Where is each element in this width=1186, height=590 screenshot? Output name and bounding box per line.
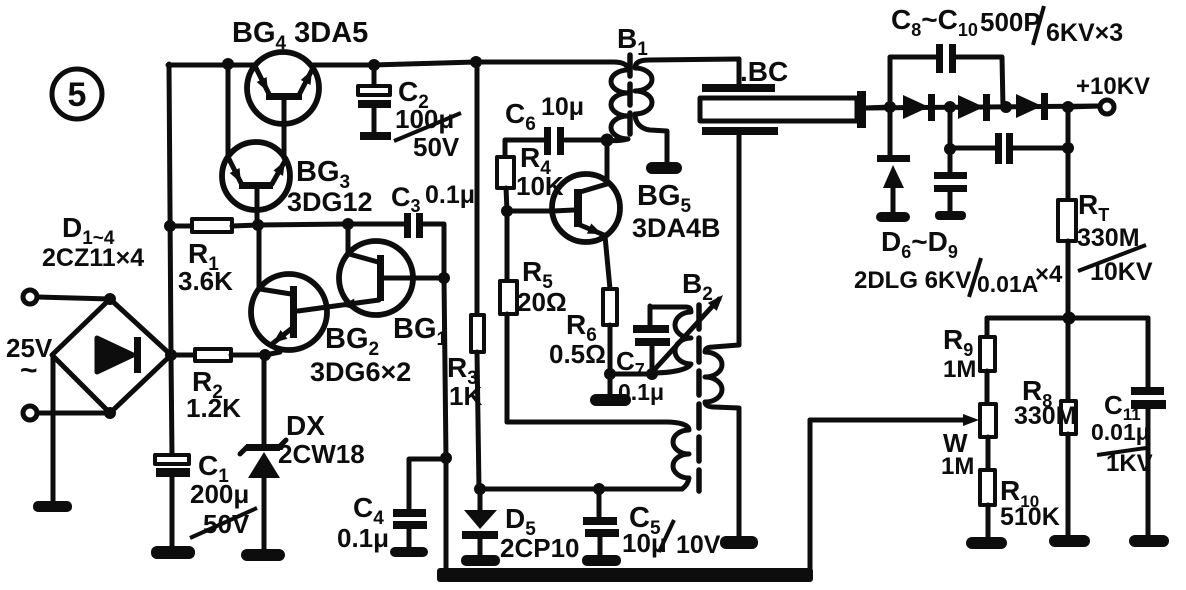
- svg-text:3.6K: 3.6K: [178, 266, 233, 296]
- terminal AC input top: [23, 290, 37, 304]
- svg-text:0.1μ: 0.1μ: [337, 523, 389, 553]
- wire R6 to C7: [610, 372, 652, 377]
- node C4 stub: [440, 452, 452, 464]
- capacitor C3: [348, 213, 444, 278]
- ground B2 secondary: [720, 536, 758, 549]
- svg-text:0.01A: 0.01A: [977, 271, 1038, 297]
- wire wiper return: [808, 420, 813, 572]
- wire BG3 collector drop: [226, 64, 231, 158]
- capacitor C6: [544, 127, 564, 155]
- svg-text:200μ: 200μ: [190, 479, 249, 509]
- transformer B2 variable arrow: [655, 291, 727, 369]
- svg-text:10V: 10V: [676, 531, 721, 559]
- svg-text:+10KV: +10KV: [1076, 73, 1150, 100]
- bridge diode symbol: [97, 337, 141, 373]
- wire BG2 collector drop: [257, 225, 262, 288]
- svg-text:50V: 50V: [413, 132, 460, 162]
- svg-text:10μ: 10μ: [622, 528, 667, 558]
- transformer B2 primary winding: [666, 422, 689, 489]
- svg-text:~: ~: [20, 354, 38, 387]
- ground D6: [876, 212, 910, 222]
- wire R2 to DX node: [231, 353, 265, 358]
- wire feedback drop x445: [444, 278, 446, 572]
- svg-text:BG5: BG5: [637, 180, 692, 217]
- svg-text:0.5Ω: 0.5Ω: [549, 339, 606, 369]
- node D6 top: [884, 101, 896, 113]
- transistor BG1: [298, 224, 444, 315]
- capacitor C9 shunt: [934, 107, 967, 212]
- svg-text:3DG12: 3DG12: [287, 187, 373, 217]
- node C8 right: [1000, 101, 1012, 113]
- wire output to terminal: [1068, 106, 1100, 107]
- svg-text:C6: C6: [505, 98, 536, 135]
- potentiometer W: [980, 404, 996, 470]
- terminal AC input bottom: [23, 406, 37, 420]
- ground R6: [590, 374, 631, 406]
- wire C6 right to node607: [565, 138, 607, 143]
- resistor R5: [500, 211, 517, 422]
- ground B1 secondary: [646, 162, 682, 174]
- resistor R2: [195, 349, 231, 361]
- node BG1 collector: [342, 218, 354, 230]
- node divider: [1063, 312, 1076, 325]
- svg-text:1M: 1M: [941, 453, 974, 480]
- transformer B1 secondary winding: [635, 59, 739, 163]
- svg-text:5: 5: [68, 76, 87, 114]
- resistor R1: [192, 219, 232, 232]
- wire multiplier main rail: [866, 106, 1100, 108]
- svg-text:DX: DX: [286, 410, 325, 441]
- svg-text:1K: 1K: [449, 381, 482, 411]
- wire BG5 emitter to R6: [605, 236, 610, 289]
- svg-text:0.1μ: 0.1μ: [618, 379, 664, 405]
- bridge rectifier D1-4 diamond: [52, 299, 171, 413]
- wire left rail: [169, 64, 172, 456]
- diode D6 shunt: [877, 107, 910, 213]
- capacitor C1: [155, 455, 190, 547]
- svg-text:D6~D9: D6~D9: [881, 226, 958, 262]
- svg-text:C3: C3: [391, 182, 421, 216]
- svg-text:3DG6×2: 3DG6×2: [310, 357, 411, 387]
- svg-text:RT: RT: [1078, 189, 1109, 225]
- node C10 left: [944, 143, 956, 155]
- transistor BG3: [222, 142, 290, 225]
- svg-text:2DLG 6KV: 2DLG 6KV: [854, 267, 971, 294]
- node C2 top: [368, 59, 380, 71]
- svg-text:20Ω: 20Ω: [517, 287, 567, 317]
- svg-text:10K: 10K: [516, 171, 564, 201]
- svg-text:510K: 510K: [1000, 503, 1060, 531]
- node BG3 base: [252, 219, 264, 231]
- tube BC right plate: [857, 91, 890, 128]
- svg-text:BG2: BG2: [325, 323, 379, 360]
- capacitor C10: [950, 133, 1068, 164]
- node R6 bottom: [604, 368, 616, 380]
- wire R1 to node258: [232, 225, 258, 226]
- capacitor C4: [390, 459, 446, 557]
- capacitor C2: [358, 65, 391, 140]
- resistor R7: [1058, 148, 1076, 318]
- wire bridge left vertex to ground: [51, 356, 56, 502]
- ground C9: [935, 211, 966, 220]
- node output: [1062, 101, 1074, 113]
- wire top rail C2 to R3: [374, 62, 476, 65]
- capacitor C11: [1131, 318, 1166, 537]
- svg-text:10μ: 10μ: [541, 93, 584, 121]
- node C9 top: [944, 101, 956, 113]
- svg-text:BG1: BG1: [393, 313, 448, 350]
- node top rail x228: [222, 58, 234, 70]
- node R7 top: [1062, 142, 1074, 154]
- wire bridge to R2: [171, 353, 195, 358]
- diode D5 2CP10: [461, 489, 500, 566]
- wire top rail R3 to B1: [476, 60, 613, 65]
- transistor BG2: [251, 274, 327, 350]
- wire node258 to BG1 collector node: [258, 224, 348, 225]
- wire rail to R1: [170, 224, 192, 229]
- node R1 left: [164, 220, 176, 232]
- svg-text:500P: 500P: [980, 7, 1041, 37]
- node C7 bottom: [646, 368, 658, 380]
- svg-text:330M: 330M: [1014, 402, 1077, 430]
- wire AC bottom: [37, 411, 110, 416]
- figure number 5: [52, 69, 102, 119]
- svg-text:.BC: .BC: [740, 56, 788, 87]
- node bridge bottom vertex: [104, 407, 116, 419]
- svg-text:1.2K: 1.2K: [186, 393, 241, 423]
- svg-text:2CP10: 2CP10: [500, 533, 580, 563]
- diode D9: [1016, 93, 1048, 120]
- svg-text:R9: R9: [943, 324, 973, 360]
- wire D5 to B2 primary bottom: [480, 487, 682, 492]
- capacitor C7: [633, 306, 670, 374]
- terminal +10KV: [1100, 100, 1114, 114]
- resistor R10: [980, 470, 995, 539]
- transformer B1 primary winding: [607, 62, 628, 141]
- wire AC top: [37, 297, 110, 299]
- transistor BG4: [247, 52, 319, 158]
- svg-text:330M: 330M: [1077, 224, 1140, 252]
- capacitor C5: [582, 489, 621, 566]
- tube BC top electrode: [702, 59, 775, 92]
- transformer B2 tank winding: [650, 307, 691, 373]
- node BG1 base: [438, 272, 450, 284]
- svg-text:1M: 1M: [943, 356, 976, 383]
- svg-text:0.1μ: 0.1μ: [425, 181, 475, 209]
- svg-text:2CZ11×4: 2CZ11×4: [42, 244, 144, 272]
- capacitor C8: [890, 44, 1003, 107]
- node DX top: [259, 349, 271, 361]
- resistor R4: [497, 140, 514, 211]
- diode D7: [903, 94, 935, 121]
- node R3 top: [470, 56, 482, 68]
- node D5 top: [474, 483, 486, 495]
- wire base BG5: [507, 209, 553, 214]
- wire R5 to B2 primary: [507, 420, 666, 425]
- svg-text:2CW18: 2CW18: [278, 439, 365, 469]
- resistor R8: [1061, 318, 1076, 537]
- resistor R9: [980, 318, 995, 404]
- wire B2 secondary to ground: [737, 408, 742, 537]
- node bridge right vertex: [165, 349, 177, 361]
- transistor BG5: [552, 140, 620, 242]
- resistor R6: [603, 289, 617, 374]
- transformer B1 core: [627, 55, 633, 137]
- zener diode DX 2CW18: [240, 355, 286, 550]
- ground R8: [1049, 535, 1090, 547]
- svg-text:×4: ×4: [1035, 261, 1063, 288]
- transformer B2 secondary winding: [705, 345, 739, 408]
- wire divider top: [987, 316, 1148, 321]
- ground R10: [966, 537, 1007, 549]
- node B1 bottom junction: [601, 134, 614, 147]
- svg-text:C7: C7: [616, 346, 645, 380]
- svg-text:3DA4B: 3DA4B: [632, 213, 721, 243]
- wire C6 left: [505, 138, 545, 143]
- wire top rail to BG4 collector: [168, 63, 255, 68]
- svg-text:B2: B2: [682, 268, 713, 305]
- tube BC bottom electrode: [702, 127, 778, 345]
- diode D8: [958, 94, 990, 121]
- tube BC body: [700, 98, 857, 121]
- wire output node to R7: [1066, 107, 1071, 148]
- ground DX: [241, 549, 285, 561]
- wire node to BG2 emitter: [265, 352, 280, 355]
- node bridge top vertex: [104, 293, 116, 305]
- transformer B2 core: [696, 305, 702, 491]
- wiper arrow W: [810, 414, 979, 426]
- ground bus bottom: [437, 568, 813, 582]
- svg-text:1KV: 1KV: [1106, 450, 1153, 477]
- ground C1: [151, 546, 195, 559]
- svg-text:C8~C10: C8~C10: [891, 4, 978, 40]
- svg-text:10KV: 10KV: [1090, 258, 1153, 286]
- svg-text:50V: 50V: [203, 509, 250, 539]
- svg-text:BG4 3DA5: BG4 3DA5: [232, 17, 368, 54]
- node BG5 base junction: [501, 205, 513, 217]
- wire emitter BG4 to C2 node: [312, 63, 374, 68]
- resistor R3: [471, 62, 484, 489]
- ground C11: [1129, 535, 1169, 547]
- svg-text:0.01μ: 0.01μ: [1091, 419, 1150, 445]
- ground bridge: [33, 501, 72, 512]
- node C5 top: [593, 483, 605, 495]
- svg-text:6KV×3: 6KV×3: [1046, 19, 1123, 47]
